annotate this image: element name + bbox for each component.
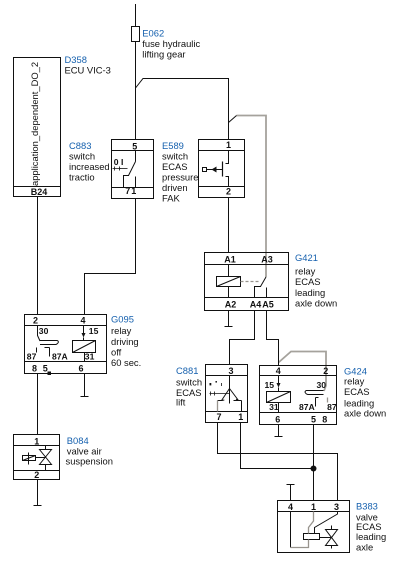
svg-text:driving: driving xyxy=(111,336,139,347)
svg-text:1: 1 xyxy=(226,140,231,150)
svg-text:2: 2 xyxy=(33,316,38,326)
svg-text:C883: C883 xyxy=(69,140,91,151)
svg-text:FAK: FAK xyxy=(162,193,180,204)
svg-text:ECAS: ECAS xyxy=(162,161,188,172)
svg-text:axle: axle xyxy=(356,542,373,553)
svg-text:lifting gear: lifting gear xyxy=(142,49,185,60)
svg-text:G421: G421 xyxy=(295,252,318,263)
svg-text:relay: relay xyxy=(111,325,132,336)
svg-text:4: 4 xyxy=(80,316,85,326)
svg-text:application_dependent_DO_2: application_dependent_DO_2 xyxy=(29,62,40,186)
svg-text:E589: E589 xyxy=(162,140,184,151)
svg-text:60 sec.: 60 sec. xyxy=(111,357,141,368)
svg-text:ECU VIC-3: ECU VIC-3 xyxy=(65,65,111,76)
svg-text:87: 87 xyxy=(27,351,37,361)
svg-text:off: off xyxy=(111,347,122,358)
svg-text:6: 6 xyxy=(78,363,83,373)
svg-text:15: 15 xyxy=(265,380,275,390)
svg-text:switch: switch xyxy=(162,150,188,161)
svg-text:switch: switch xyxy=(69,150,95,161)
svg-text:B383: B383 xyxy=(356,501,378,512)
svg-text:2: 2 xyxy=(226,186,231,196)
svg-text:87A: 87A xyxy=(299,402,315,412)
svg-text:6: 6 xyxy=(275,414,280,424)
svg-text:A5: A5 xyxy=(262,300,274,310)
svg-text:A2: A2 xyxy=(225,300,237,310)
svg-text:4: 4 xyxy=(276,366,281,376)
svg-text:pressure: pressure xyxy=(162,172,198,183)
svg-text:C881: C881 xyxy=(176,365,198,376)
svg-text:axle down: axle down xyxy=(295,297,337,308)
svg-text:1: 1 xyxy=(131,186,136,196)
svg-text:driven: driven xyxy=(162,182,188,193)
svg-text:0 I: 0 I xyxy=(114,157,124,167)
svg-text:increased: increased xyxy=(69,161,110,172)
svg-text:31: 31 xyxy=(269,402,279,412)
svg-text:4: 4 xyxy=(288,502,293,512)
svg-text:ECAS: ECAS xyxy=(295,276,321,287)
svg-text:A3: A3 xyxy=(261,255,273,265)
svg-text:lift: lift xyxy=(176,396,186,407)
svg-text:switch: switch xyxy=(176,376,202,387)
svg-text:7: 7 xyxy=(216,412,221,422)
svg-text:1: 1 xyxy=(34,436,39,446)
svg-text:5: 5 xyxy=(311,414,316,424)
svg-text:A1: A1 xyxy=(224,255,236,265)
svg-text:5: 5 xyxy=(43,363,48,373)
svg-text:A4: A4 xyxy=(250,300,262,310)
svg-text:1: 1 xyxy=(311,502,316,512)
svg-text:30: 30 xyxy=(39,326,49,336)
svg-text:8: 8 xyxy=(32,363,37,373)
svg-text:87A: 87A xyxy=(52,351,68,361)
svg-text:8: 8 xyxy=(322,414,327,424)
svg-text:D358: D358 xyxy=(65,54,87,65)
svg-text:axle down: axle down xyxy=(344,407,386,418)
svg-text:E062: E062 xyxy=(142,28,164,39)
svg-text:7: 7 xyxy=(125,186,130,196)
svg-text:G095: G095 xyxy=(111,314,134,325)
svg-text:5: 5 xyxy=(132,141,137,151)
svg-text:leading: leading xyxy=(295,287,325,298)
svg-text:3: 3 xyxy=(228,366,233,376)
svg-text:ECAS: ECAS xyxy=(344,386,370,397)
svg-text:31: 31 xyxy=(85,351,95,361)
svg-text:fuse hydraulic: fuse hydraulic xyxy=(142,38,200,49)
svg-text:87: 87 xyxy=(327,402,337,412)
svg-text:2: 2 xyxy=(323,366,328,376)
svg-text:B24: B24 xyxy=(31,187,48,197)
svg-text:suspension: suspension xyxy=(66,456,113,467)
svg-text:15: 15 xyxy=(89,326,99,336)
svg-text:3: 3 xyxy=(334,502,339,512)
svg-text:30: 30 xyxy=(317,380,327,390)
svg-text:tractio: tractio xyxy=(69,172,95,183)
svg-text:1: 1 xyxy=(238,412,243,422)
svg-text:leading: leading xyxy=(356,531,386,542)
svg-text:relay: relay xyxy=(344,375,365,386)
svg-text:2: 2 xyxy=(34,470,39,480)
